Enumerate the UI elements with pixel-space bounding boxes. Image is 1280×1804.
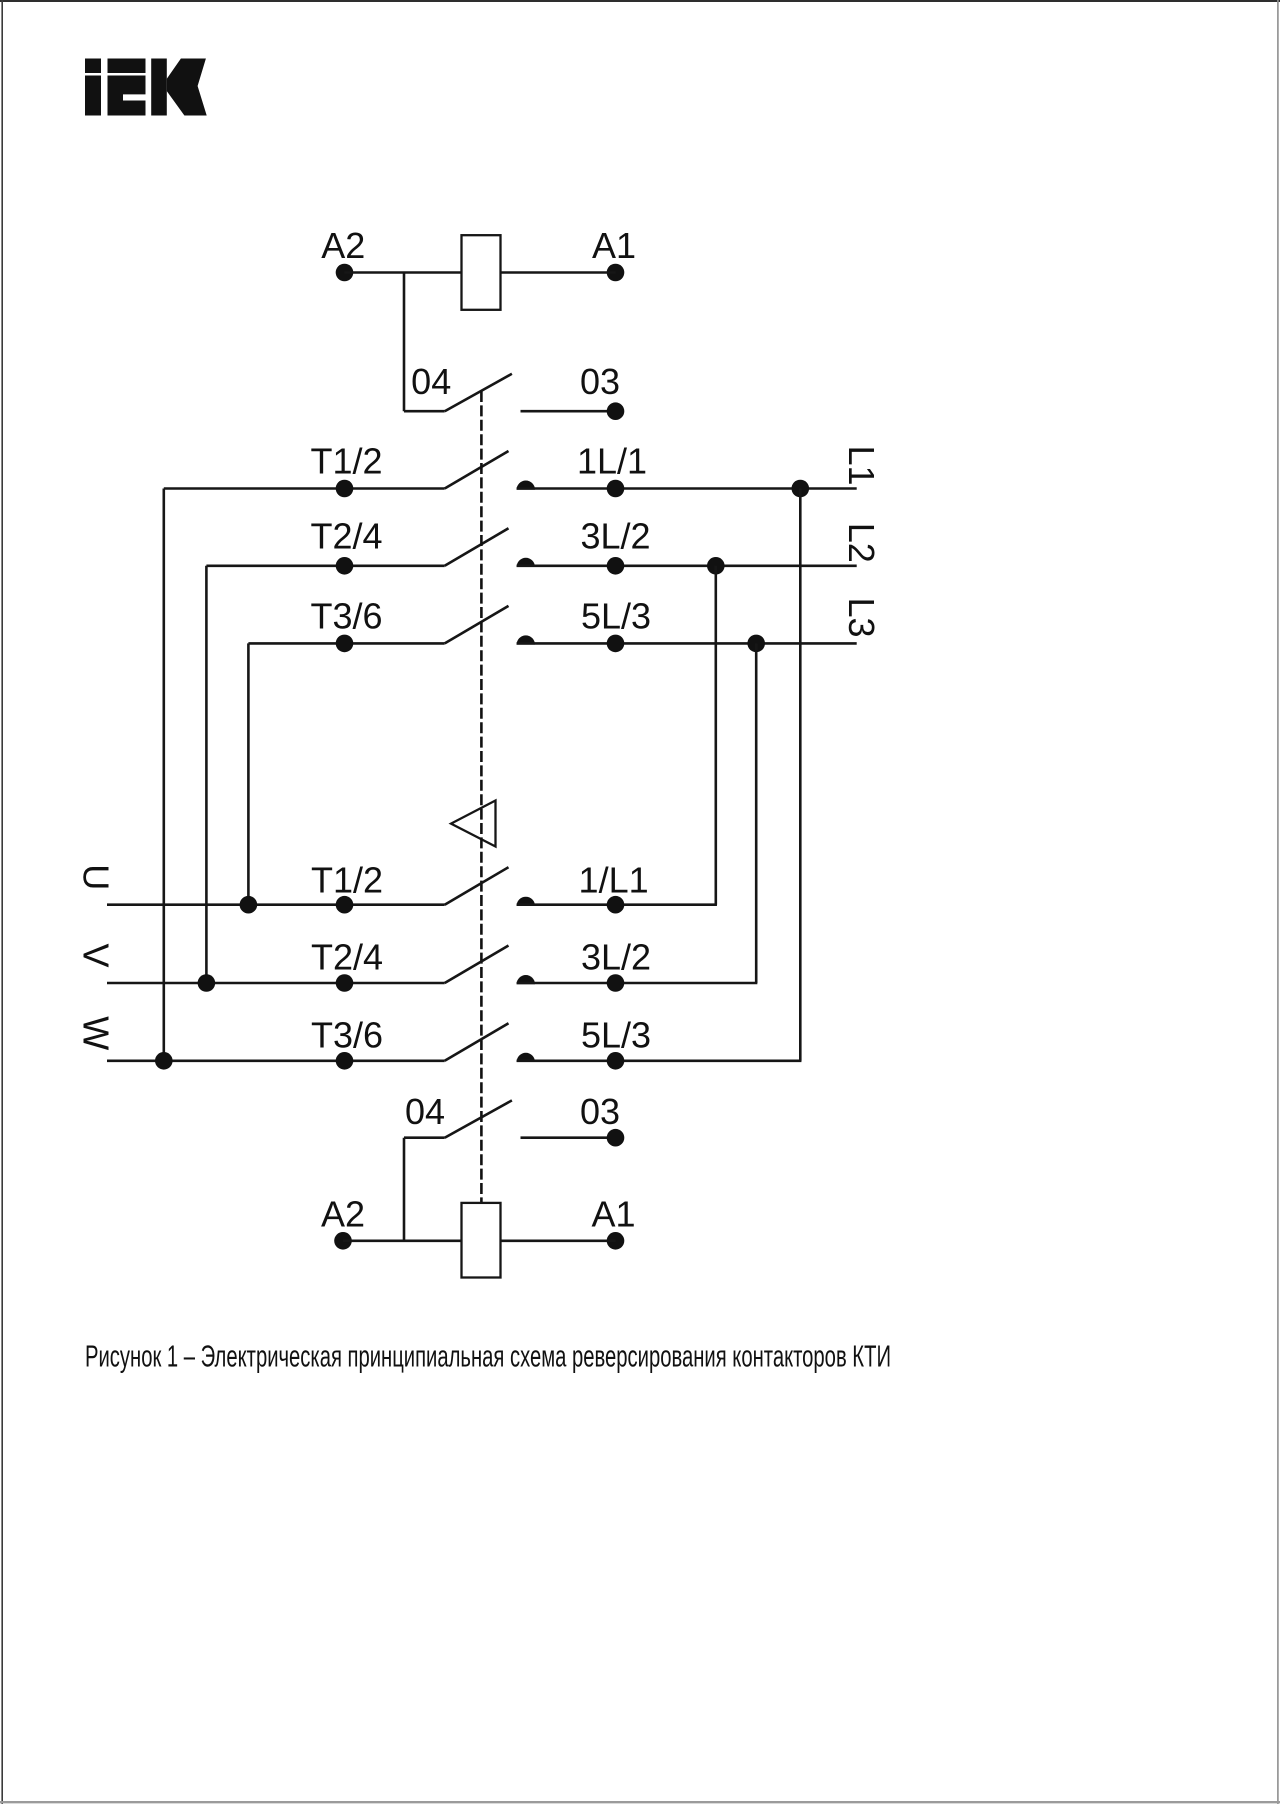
svg-text:T2/4: T2/4 xyxy=(310,516,382,557)
svg-text:3L/2: 3L/2 xyxy=(580,516,650,557)
aux contact 04-03 (KM1): lead wire xyxy=(404,410,445,413)
aux contact 04-03 (KM2): fixed side wire xyxy=(521,1136,616,1139)
svg-text:5L/3: 5L/3 xyxy=(581,1014,651,1055)
svg-text:U: U xyxy=(76,864,117,890)
fixed contact seat 1L/1 (KM1) xyxy=(517,481,535,490)
node 3L/2 (KM2) xyxy=(607,974,625,992)
svg-text:5L/3: 5L/3 xyxy=(581,596,651,637)
wire A2 to KM1 coil xyxy=(345,271,462,274)
wire L1 vertical to lower contactor xyxy=(799,489,802,1061)
mechanical interlock triangle symbol xyxy=(451,801,496,847)
wire L2 vertical to lower contactor xyxy=(714,566,717,905)
wire T2/4 row (KM1) left segment xyxy=(206,564,444,567)
svg-text:T2/4: T2/4 xyxy=(311,936,383,977)
svg-text:03: 03 xyxy=(580,361,620,402)
svg-text:L2: L2 xyxy=(841,523,882,563)
node A1 (KM1) xyxy=(607,264,625,282)
wire 1/L1 row (KM2) right segment xyxy=(517,903,717,906)
svg-text:04: 04 xyxy=(405,1091,445,1132)
wire aux 04 branch down to A2 wire (KM2) xyxy=(403,1138,406,1241)
svg-text:Рисунок 1 – Электрическая прин: Рисунок 1 – Электрическая принципиальная… xyxy=(85,1339,891,1374)
svg-text:A1: A1 xyxy=(591,1194,635,1235)
wire left vertical riser to T3/6 (KM1) xyxy=(247,643,250,904)
contactor KM2 coil xyxy=(462,1203,501,1278)
wire 5L/3 row (KM2) right segment xyxy=(517,1060,802,1063)
wire V row (KM2) left segment xyxy=(107,982,445,985)
svg-text:V: V xyxy=(76,943,117,967)
fixed contact seat 1/L1 (KM2) xyxy=(517,897,535,906)
mechanical linkage dashed line xyxy=(480,391,483,1204)
main contact blade T2/4 (KM1) xyxy=(445,528,509,566)
wire T3/6 row (KM1) left segment xyxy=(248,642,444,645)
aux contact 04-03 (KM2): lead wire xyxy=(404,1136,445,1139)
aux contact 04-03 (KM2): movable blade xyxy=(445,1100,512,1137)
svg-text:T3/6: T3/6 xyxy=(310,596,382,637)
svg-text:1/L1: 1/L1 xyxy=(579,859,649,900)
wire KM2 coil to A1 xyxy=(501,1240,616,1243)
svg-text:1L/1: 1L/1 xyxy=(577,441,647,482)
wire 3L/2 row (KM2) right segment xyxy=(517,982,758,985)
junction node riser-W xyxy=(155,1052,173,1070)
node 1/L1 (KM2) xyxy=(607,896,625,914)
wire T1/2 row (KM1) left segment xyxy=(164,487,445,490)
svg-text:T1/2: T1/2 xyxy=(310,441,382,482)
node T1/2 (KM2) xyxy=(336,896,354,914)
junction node riser-U xyxy=(240,896,258,914)
node T2/4 (KM1) xyxy=(336,557,354,575)
junction node riser-V xyxy=(198,974,216,992)
svg-text:T1/2: T1/2 xyxy=(311,859,383,900)
wire L3 vertical to lower contactor xyxy=(755,643,758,983)
svg-text:W: W xyxy=(76,1016,117,1050)
node A2 (KM2) xyxy=(334,1232,352,1250)
junction node L1 tap xyxy=(792,480,810,498)
svg-text:04: 04 xyxy=(411,361,451,402)
svg-text:03: 03 xyxy=(580,1091,620,1132)
node 03 (KM1) xyxy=(607,402,625,420)
node T1/2 (KM1) xyxy=(336,480,354,498)
main contact blade T1/2 (KM2) xyxy=(445,867,509,905)
IEK logo letter K xyxy=(151,59,207,116)
wire A2 to KM2 coil xyxy=(343,1240,462,1243)
wire W row (KM2) left segment xyxy=(107,1060,445,1063)
node 5L/3 (KM1) xyxy=(607,635,625,653)
junction node L2 tap xyxy=(707,557,725,575)
wire 1L/1 row (KM1) right segment xyxy=(517,487,857,490)
fixed contact seat 5L/3 (KM2) xyxy=(517,1053,535,1062)
aux contact 04-03 (KM1): movable blade xyxy=(445,374,512,411)
node A2 (KM1) xyxy=(336,264,354,282)
node 3L/2 (KM1) xyxy=(607,557,625,575)
svg-text:3L/2: 3L/2 xyxy=(581,936,651,977)
main contact blade T1/2 (KM1) xyxy=(445,451,509,489)
node A1 (KM2) xyxy=(607,1232,625,1250)
svg-text:T3/6: T3/6 xyxy=(311,1014,383,1055)
wire A2 branch down to aux contact 04 (KM1) xyxy=(403,273,406,412)
junction node L3 tap xyxy=(747,635,765,653)
svg-text:L3: L3 xyxy=(841,597,882,637)
node 1L/1 (KM1) xyxy=(607,480,625,498)
aux contact 04-03 (KM1): fixed side wire xyxy=(521,410,616,413)
IEK logo letter E xyxy=(108,59,146,116)
wire U row (KM2) left segment xyxy=(107,903,445,906)
node T3/6 (KM1) xyxy=(336,635,354,653)
svg-text:A1: A1 xyxy=(592,225,636,266)
node 03 (KM2) xyxy=(607,1129,625,1147)
main contact blade T2/4 (KM2) xyxy=(445,946,509,984)
wire 3L/2 row (KM1) right segment xyxy=(517,564,857,567)
fixed contact seat 3L/2 (KM1) xyxy=(517,558,535,567)
node 5L/3 (KM2) xyxy=(607,1052,625,1070)
node T2/4 (KM2) xyxy=(336,974,354,992)
svg-text:L1: L1 xyxy=(841,445,882,485)
main contact blade T3/6 (KM1) xyxy=(445,606,509,644)
svg-text:A2: A2 xyxy=(321,225,365,266)
IEK logo letter i xyxy=(85,59,101,116)
wire left vertical riser to T1/2 (KM1) xyxy=(163,489,166,1061)
main contact blade T3/6 (KM2) xyxy=(445,1023,509,1061)
contactor KM1 coil xyxy=(462,235,501,310)
fixed contact seat 3L/2 (KM2) xyxy=(517,975,535,984)
svg-text:A2: A2 xyxy=(321,1194,365,1235)
wire KM1 coil to A1 xyxy=(501,271,616,274)
wire left vertical riser to T2/4 (KM1) xyxy=(205,566,208,983)
node T3/6 (KM2) xyxy=(336,1052,354,1070)
fixed contact seat 5L/3 (KM1) xyxy=(517,635,535,644)
wire 5L/3 row (KM1) right segment xyxy=(517,642,857,645)
